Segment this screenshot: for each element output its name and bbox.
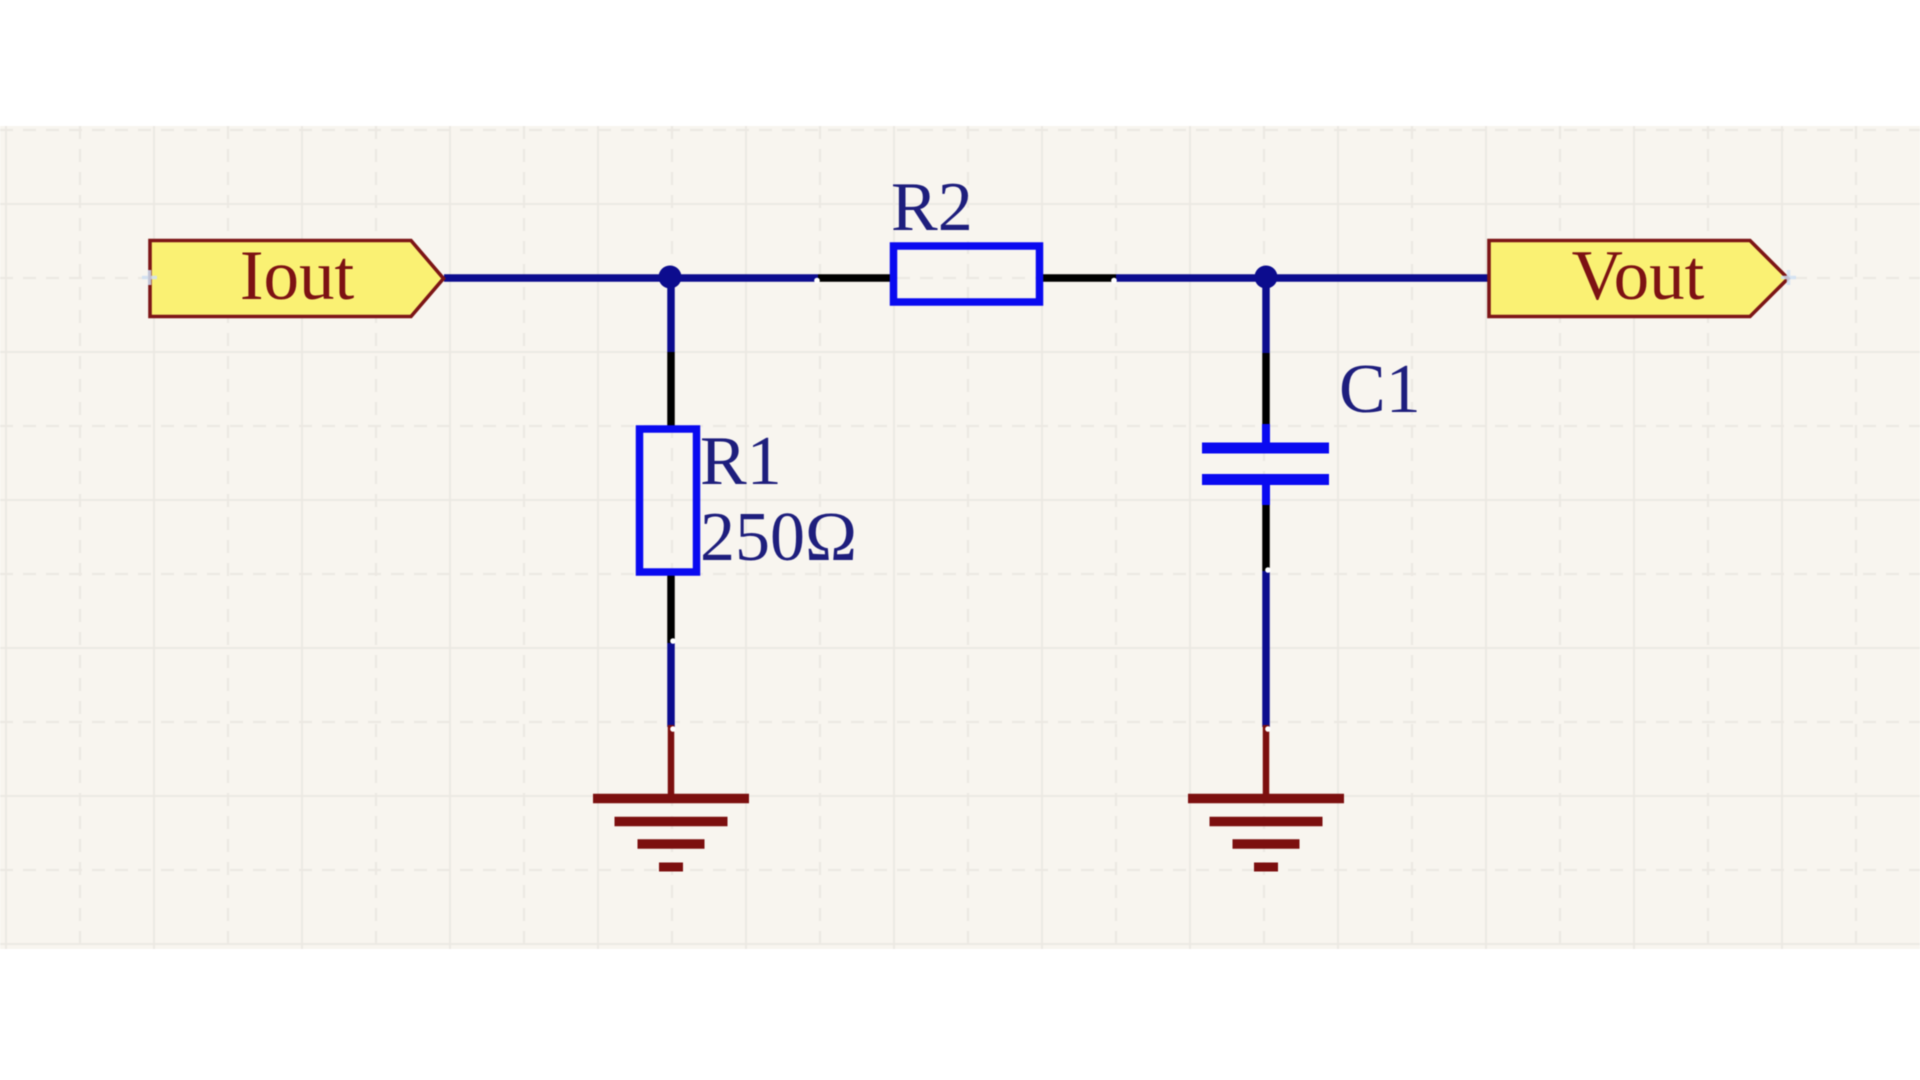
svg-text:Iout: Iout	[240, 237, 355, 315]
hotspot speck at R1 bottom pin end	[670, 638, 676, 644]
junction node B	[1255, 266, 1278, 289]
wire: C1 bottom pin (black)	[1262, 505, 1270, 571]
hotspot speck at right ground stem top	[1265, 726, 1271, 732]
junction node A	[659, 266, 682, 289]
ground symbol (right, under C1)	[1188, 725, 1344, 867]
snap cross marker at Iout left edge	[142, 270, 157, 285]
wire: C1 top stub (blue)	[1262, 424, 1270, 444]
wire: Iout port to R2 left pin (navy, horizontal)	[444, 274, 818, 282]
snap cross marker at Vout tip	[1781, 270, 1796, 285]
svg-text:R2: R2	[891, 169, 973, 246]
sheet background	[0, 126, 1920, 949]
svg-text:C1: C1	[1339, 351, 1421, 428]
hotspot speck at C1 bottom pin end	[1265, 567, 1271, 573]
capacitor C1 bottom plate	[1202, 474, 1329, 485]
wire: R1 top pin (black)	[667, 352, 675, 427]
wire: C1 top pin (black)	[1262, 353, 1270, 426]
hotspot speck at R2 right pin end	[1111, 278, 1117, 284]
wire: C1 bottom stub (blue)	[1262, 484, 1270, 505]
port Vout	[1489, 241, 1788, 317]
wire: node A down (navy, vertical)	[667, 278, 675, 352]
wire: R2 right pin (black)	[1041, 274, 1116, 282]
wire: R2 left pin (black)	[818, 274, 892, 282]
hotspot speck at left ground stem top	[670, 726, 676, 732]
resistor R2 (horizontal body)	[894, 246, 1040, 302]
ground symbol (left, under R1)	[593, 725, 749, 867]
grid major lines	[0, 126, 1920, 949]
resistor R1 (vertical body)	[640, 429, 697, 572]
capacitor C1 top plate	[1202, 443, 1329, 454]
svg-text:250Ω: 250Ω	[700, 499, 857, 576]
svg-text:R1: R1	[700, 423, 782, 500]
wire: R1 bottom pin (black)	[667, 574, 675, 643]
svg-text:Vout: Vout	[1572, 237, 1705, 315]
wire: R2 to Vout port (navy, horizontal)	[1116, 274, 1489, 282]
wire: R1 to ground (navy, vertical)	[667, 643, 675, 727]
port Iout	[150, 241, 444, 317]
wire: C1 to ground (navy, vertical)	[1262, 571, 1270, 727]
hotspot speck at R2 left pin end	[814, 278, 820, 284]
wire: node B down (navy, vertical)	[1262, 278, 1270, 353]
grid minor dashed lines	[0, 126, 1920, 949]
